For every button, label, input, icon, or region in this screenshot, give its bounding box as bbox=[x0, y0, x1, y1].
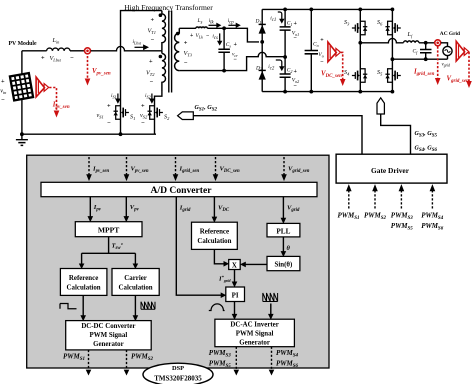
capacitor C1 bbox=[284, 9, 286, 27]
Carrier Calculation box bbox=[112, 269, 159, 296]
svg-text:+: + bbox=[234, 42, 238, 48]
svg-text:Vgrid_sen: Vgrid_sen bbox=[447, 76, 470, 85]
H-bridge left leg bbox=[359, 9, 361, 91]
dashed PWM arrows into gate driver bbox=[349, 191, 433, 209]
svg-text:+: + bbox=[1, 78, 5, 85]
sawtooth icon (inverter carrier) bbox=[263, 293, 278, 302]
arrow X to PI + I*_grid label bbox=[234, 270, 236, 282]
diode D1 bbox=[259, 25, 266, 34]
arrow RefCalcR to X bbox=[214, 249, 223, 263]
svg-text:Vo: Vo bbox=[318, 52, 323, 58]
H-bridge right leg bbox=[391, 9, 393, 91]
wire with hop over S1 leg bbox=[91, 46, 162, 50]
svg-text:DC-DC Converter: DC-DC Converter bbox=[81, 323, 135, 330]
pentagon tag up (gates S3-S6) bbox=[377, 98, 384, 114]
svg-text:−: − bbox=[150, 79, 154, 86]
svg-text:S5: S5 bbox=[377, 69, 383, 77]
node: red sense node (primary) bbox=[85, 48, 91, 54]
svg-text:VDC_sen: VDC_sen bbox=[321, 71, 342, 80]
svg-text:DSP: DSP bbox=[172, 365, 184, 372]
wire I_grid long line to PI bbox=[176, 197, 221, 296]
svg-text:VT2: VT2 bbox=[146, 70, 155, 78]
arrow I_pv to MPPT bbox=[89, 197, 91, 217]
svg-text:vgrid: vgrid bbox=[442, 63, 451, 68]
svg-text:S3: S3 bbox=[344, 19, 350, 27]
svg-text:PWMS2: PWMS2 bbox=[364, 212, 387, 222]
svg-text:iLbst: iLbst bbox=[133, 39, 142, 45]
svg-text:Co: Co bbox=[313, 42, 319, 48]
arrow RefCalc to DC-DC bbox=[82, 295, 84, 315]
Gate Driver box bbox=[336, 154, 447, 183]
svg-text:iS1: iS1 bbox=[111, 93, 117, 99]
svg-text:+: + bbox=[294, 21, 298, 27]
DC-DC Converter PWM Signal Generator box bbox=[66, 321, 152, 350]
svg-text:MPPT: MPPT bbox=[98, 226, 120, 235]
svg-text:−: − bbox=[70, 55, 74, 62]
diode D2 bbox=[259, 71, 266, 80]
svg-text:VT1: VT1 bbox=[148, 28, 156, 36]
MPPT box bbox=[75, 222, 142, 237]
node A junction bbox=[260, 40, 264, 44]
dashed outputs PWM_S3/S5 and PWM_S4/S6 bbox=[235, 347, 237, 370]
svg-text:TMS320F28035: TMS320F28035 bbox=[154, 375, 202, 383]
svg-text:+: + bbox=[151, 17, 155, 24]
svg-text:Generator: Generator bbox=[239, 339, 270, 346]
svg-text:ilk: ilk bbox=[209, 18, 215, 26]
sensor V_grid (red transducer) bbox=[456, 41, 469, 61]
svg-text:+: + bbox=[41, 55, 45, 62]
svg-text:VT3: VT3 bbox=[184, 50, 193, 58]
arrow Carrier to DC-DC bbox=[134, 295, 136, 315]
step waveform icon bbox=[60, 304, 77, 309]
inductor L_s (leakage) bbox=[196, 27, 207, 28]
svg-text:GS3, GS5: GS3, GS5 bbox=[415, 130, 438, 139]
DSP TMS320F28035 ellipse bbox=[143, 363, 213, 384]
svg-text:Carrier: Carrier bbox=[124, 275, 147, 282]
svg-text:icp: icp bbox=[228, 18, 235, 26]
svg-text:Generator: Generator bbox=[93, 341, 124, 348]
A/D Converter box bbox=[41, 182, 317, 196]
svg-text:Ipv_sen: Ipv_sen bbox=[52, 102, 70, 111]
svg-text:+: + bbox=[107, 103, 111, 110]
red dashed arrow I_pv_sen bbox=[49, 88, 56, 111]
svg-text:PI: PI bbox=[232, 293, 239, 300]
svg-text:−: − bbox=[294, 84, 298, 90]
red dashed arrow V_pv_sen bbox=[87, 56, 89, 79]
red dashed arrow I_grid_sen bbox=[437, 47, 439, 79]
svg-text:PWM Signal: PWM Signal bbox=[236, 330, 274, 337]
svg-text:−: − bbox=[107, 120, 111, 127]
svg-text:vin: vin bbox=[0, 88, 7, 96]
svg-text:Lin: Lin bbox=[52, 37, 61, 45]
wire from tag to gate driver bbox=[381, 114, 411, 154]
svg-text:Gate Driver: Gate Driver bbox=[371, 166, 410, 175]
transformer core bbox=[169, 11, 172, 93]
svg-text:Calculation: Calculation bbox=[197, 238, 231, 245]
svg-text:Calculation: Calculation bbox=[119, 285, 153, 292]
svg-text:Cs: Cs bbox=[226, 42, 232, 48]
svg-text:+: + bbox=[149, 58, 153, 65]
svg-text:vS1: vS1 bbox=[97, 112, 104, 120]
svg-text:PWMS1: PWMS1 bbox=[338, 212, 360, 222]
svg-text:Ls: Ls bbox=[197, 18, 203, 26]
PLL box bbox=[267, 223, 300, 237]
transistor S5 bbox=[385, 67, 400, 84]
svg-text:Sin(θ): Sin(θ) bbox=[275, 262, 293, 269]
arrow V_grid to PLL bbox=[282, 197, 284, 219]
transistor S4 bbox=[352, 67, 367, 84]
pentagon tag G_S1,G_S2 bbox=[178, 112, 194, 120]
capacitor C2 bbox=[284, 57, 286, 74]
svg-text:Vpv_sen: Vpv_sen bbox=[92, 68, 111, 77]
svg-text:Igrid_sen: Igrid_sen bbox=[413, 69, 435, 78]
wire: secondary top bbox=[179, 27, 196, 29]
svg-text:Reference: Reference bbox=[69, 275, 98, 282]
svg-text:DC-AC Inverter: DC-AC Inverter bbox=[230, 321, 278, 328]
half-sine icon bbox=[209, 304, 225, 311]
svg-text:PWM Signal: PWM Signal bbox=[90, 332, 128, 339]
transformer winding VT3 bbox=[175, 28, 180, 70]
svg-text:−: − bbox=[184, 60, 188, 67]
inductor Lf bbox=[404, 41, 419, 43]
wire bbox=[70, 50, 84, 52]
capacitor Co (DC link) bbox=[310, 9, 312, 50]
sensor V_DC (red transducer) bbox=[328, 42, 341, 62]
wire: bridge mid-left to filter (hop over right leg) bbox=[360, 38, 403, 42]
svg-text:D2: D2 bbox=[255, 65, 262, 71]
sawtooth icon (carrier) bbox=[141, 302, 155, 310]
wire: PV left vertical bbox=[21, 51, 23, 134]
dashed outputs PWM_S1 PWM_S2 bbox=[88, 350, 90, 370]
wire to grid bbox=[419, 42, 435, 44]
svg-text:GS1, GS2: GS1, GS2 bbox=[195, 104, 218, 113]
svg-text:S6: S6 bbox=[377, 19, 383, 27]
PV module panel bbox=[10, 73, 33, 100]
svg-text:X: X bbox=[232, 262, 237, 269]
svg-text:ic1: ic1 bbox=[270, 16, 276, 24]
svg-text:ics: ics bbox=[212, 34, 218, 42]
wire: DC bottom rail bbox=[262, 91, 392, 93]
wire MPPT split bbox=[82, 237, 136, 264]
svg-text:A/D Converter: A/D Converter bbox=[150, 185, 212, 196]
wire: bottom output bbox=[392, 58, 447, 60]
svg-text:−: − bbox=[234, 57, 238, 63]
node: red sense node (grid) bbox=[435, 40, 441, 46]
arrow Sin to X bbox=[245, 263, 267, 265]
svg-text:vS2: vS2 bbox=[140, 112, 148, 120]
svg-text:S1: S1 bbox=[130, 114, 135, 122]
svg-text:+: + bbox=[184, 40, 188, 47]
Sin box bbox=[267, 256, 300, 270]
svg-text:+: + bbox=[141, 103, 145, 110]
svg-text:Calculation: Calculation bbox=[67, 285, 101, 292]
svg-text:−: − bbox=[1, 97, 5, 104]
arrow sawtooth to DC-AC bbox=[270, 304, 272, 315]
svg-text:S4: S4 bbox=[344, 69, 350, 77]
svg-text:C2: C2 bbox=[287, 68, 293, 74]
arrow PI to DC-AC bbox=[234, 302, 236, 315]
svg-text:PWMS4: PWMS4 bbox=[421, 212, 444, 222]
svg-text:AC Grid: AC Grid bbox=[440, 31, 460, 37]
transistor S1 bbox=[114, 104, 129, 121]
red dashed arrow V_DC_sen bbox=[341, 52, 343, 79]
DSP gray box bbox=[27, 155, 329, 368]
transistor S6 bbox=[385, 20, 400, 37]
svg-text:−: − bbox=[151, 37, 155, 44]
wire: S1 leg from VT1 top bbox=[121, 11, 162, 104]
wire from tag to gate driver bbox=[193, 116, 362, 155]
svg-text:+: + bbox=[320, 38, 324, 44]
arrow V_pv to MPPT bbox=[125, 197, 127, 217]
wire: DC top rail bbox=[262, 8, 392, 10]
svg-text:PWMS3: PWMS3 bbox=[391, 212, 414, 222]
transformer winding VT1 bbox=[162, 11, 166, 51]
node: Cs top junction bbox=[222, 26, 226, 30]
Reference Calculation box (left) bbox=[60, 269, 107, 296]
svg-text:+: + bbox=[190, 33, 193, 39]
X multiplier box bbox=[229, 260, 241, 270]
svg-text:PLL: PLL bbox=[276, 228, 290, 236]
wire: primary top wire bbox=[22, 50, 47, 52]
wire bbox=[207, 28, 259, 42]
svg-text:Cf: Cf bbox=[413, 49, 419, 55]
svg-text:Lf: Lf bbox=[407, 31, 413, 39]
svg-text:iS2: iS2 bbox=[145, 93, 151, 99]
wire + AC source v_grid bbox=[441, 43, 448, 47]
svg-text:ic2: ic2 bbox=[268, 64, 275, 72]
ground bbox=[21, 134, 23, 139]
svg-text:−: − bbox=[294, 36, 298, 42]
dashed sensor inputs into gray box bbox=[89, 157, 284, 175]
red dashed arrow V_grid_sen bbox=[468, 52, 470, 81]
svg-text:−: − bbox=[141, 120, 145, 127]
transformer winding VT2 bbox=[162, 54, 166, 92]
svg-text:PWMS5: PWMS5 bbox=[391, 222, 414, 232]
svg-text:GS4, GS6: GS4, GS6 bbox=[415, 145, 438, 154]
svg-text:S2: S2 bbox=[164, 114, 170, 122]
PI box bbox=[226, 287, 245, 302]
arrow PLL to Sin + theta label bbox=[282, 237, 284, 252]
arrow V_DC to Reference Calculation bbox=[213, 197, 215, 217]
capacitor Cs bbox=[223, 28, 225, 49]
wire: secondary bottom bbox=[179, 52, 285, 70]
svg-text:−: − bbox=[206, 33, 209, 39]
svg-text:Reference: Reference bbox=[200, 229, 229, 236]
sensor I_pv (red transducer) bbox=[36, 77, 49, 97]
capacitor Cf bbox=[425, 43, 427, 50]
transistor S2 bbox=[148, 104, 163, 121]
wire: S2 leg from VT2 bottom (jog) bbox=[155, 91, 162, 104]
svg-text:C1: C1 bbox=[287, 21, 293, 27]
svg-text:D1: D1 bbox=[255, 19, 262, 25]
Reference Calculation box (right) bbox=[192, 222, 238, 249]
DC-AC Inverter PWM Signal Generator box bbox=[215, 319, 295, 347]
wire: primary bottom wire bbox=[22, 133, 156, 135]
svg-text:PV Module: PV Module bbox=[9, 41, 38, 47]
svg-text:PWMS6: PWMS6 bbox=[421, 222, 444, 232]
inductor Lin bbox=[47, 48, 70, 51]
transistor S3 bbox=[352, 20, 367, 37]
svg-text:+: + bbox=[294, 69, 298, 75]
svg-text:VLbst: VLbst bbox=[50, 55, 62, 63]
svg-text:−: − bbox=[320, 60, 324, 66]
svg-text:VLk: VLk bbox=[196, 33, 204, 39]
